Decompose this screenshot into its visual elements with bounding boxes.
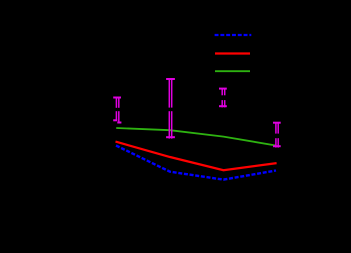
legend sample: green solid <box>215 70 250 72</box>
series: blue dashed line <box>116 146 276 180</box>
series: red solid line <box>116 142 277 171</box>
error bar pair 4 (x~277.0) <box>273 123 281 148</box>
legend sample: red solid <box>215 52 250 54</box>
error bar pair 2 (x~170.5) <box>166 79 175 139</box>
marker gap 3 <box>221 95 227 100</box>
series: green solid line <box>116 128 276 146</box>
error bar pair 1 (x~117.6) <box>113 98 121 123</box>
legend sample: blue dashed <box>215 34 252 36</box>
marker gap 4 <box>274 134 280 139</box>
marker gap 1 <box>115 108 121 111</box>
error bar pair 3 (x~223.4) <box>219 89 227 108</box>
marker gap 2 <box>168 108 174 112</box>
